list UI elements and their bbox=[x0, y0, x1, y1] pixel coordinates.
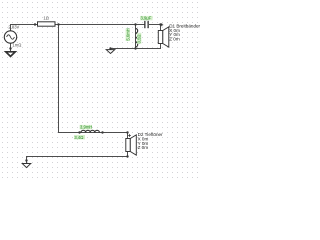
svg-text:3,9mH: 3,9mH bbox=[80, 125, 92, 130]
svg-text:2,83V: 2,83V bbox=[8, 24, 19, 29]
svg-text:5,6mH: 5,6mH bbox=[125, 28, 130, 40]
svg-text:0,5Ω: 0,5Ω bbox=[137, 34, 142, 43]
svg-text:1mΩ: 1mΩ bbox=[12, 42, 21, 47]
svg-text:Z 0m: Z 0m bbox=[169, 37, 180, 42]
svg-text:Z 0m: Z 0m bbox=[138, 145, 149, 150]
svg-text:1Ω: 1Ω bbox=[43, 15, 48, 20]
svg-text:3,4Ω: 3,4Ω bbox=[74, 135, 83, 140]
svg-text:3,9µF: 3,9µF bbox=[141, 16, 152, 21]
